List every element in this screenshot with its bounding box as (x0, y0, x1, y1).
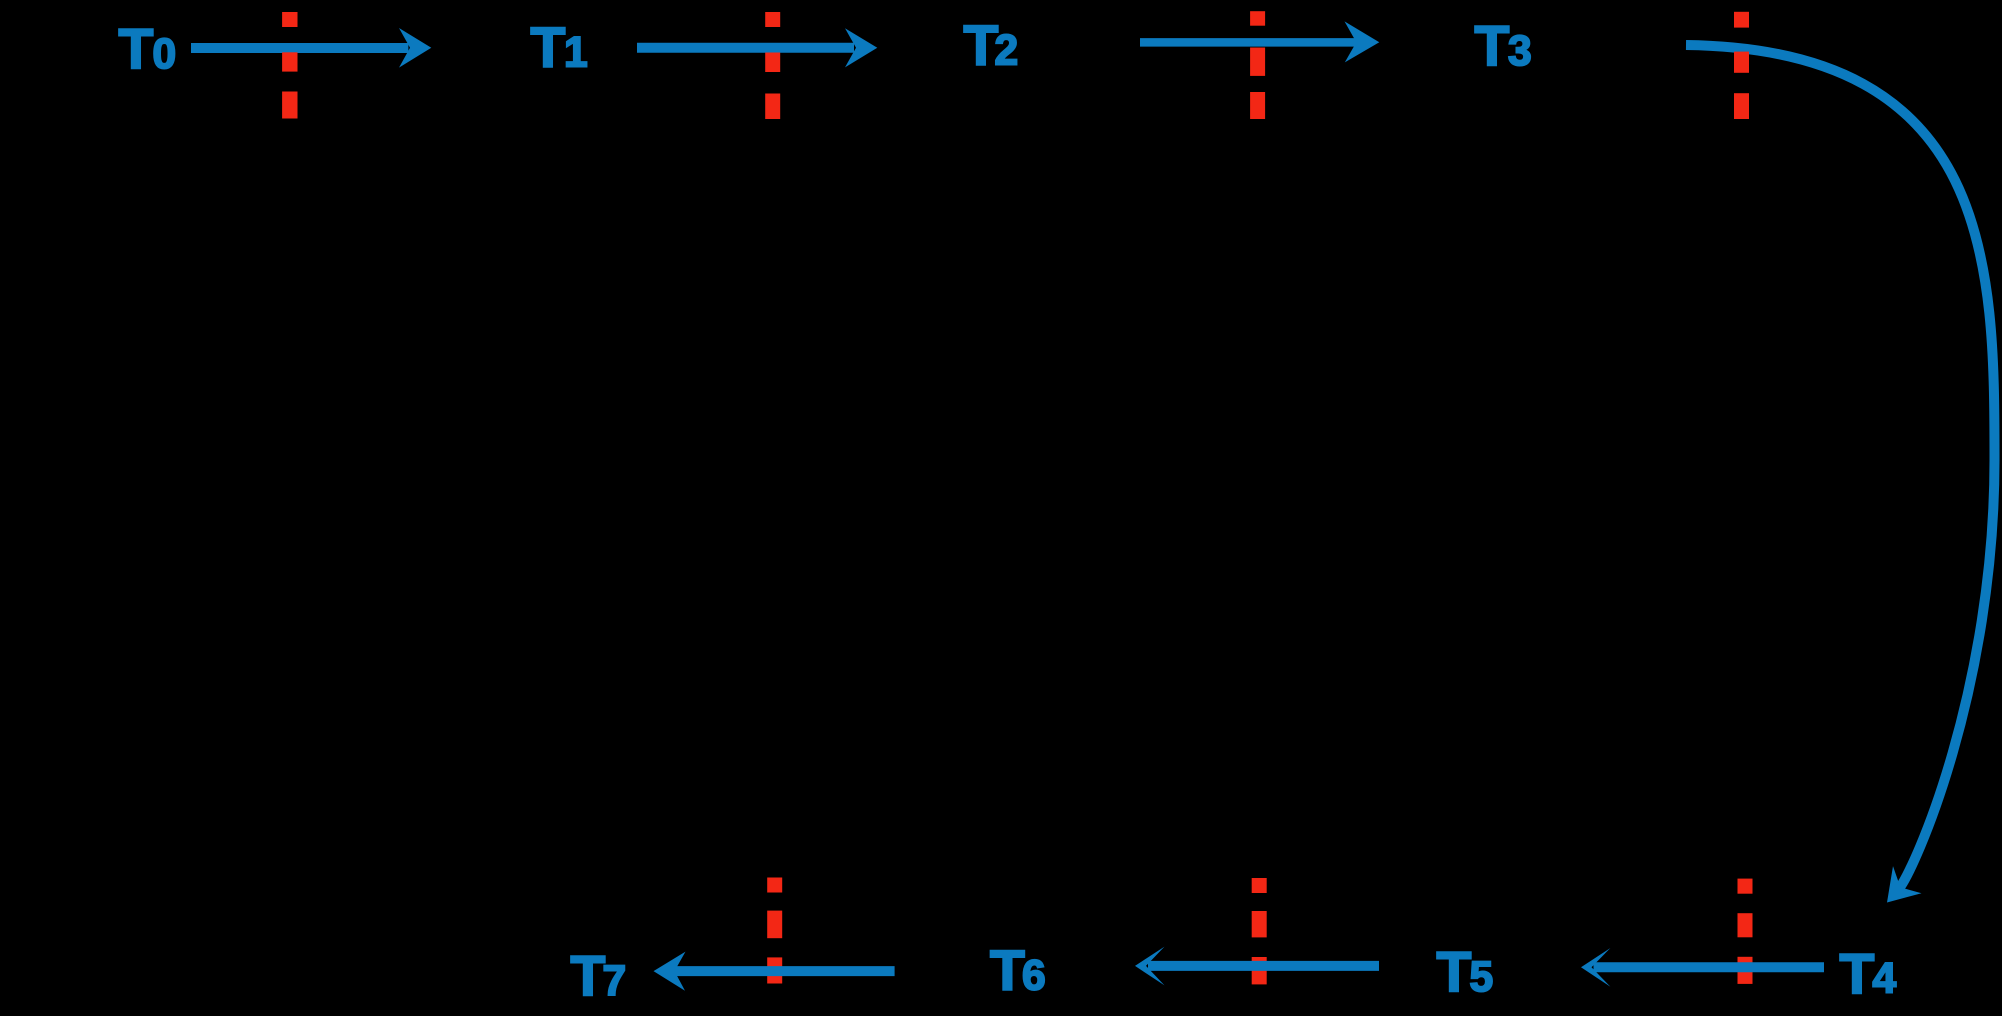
arrow T1 to T2 (637, 28, 877, 67)
label T1 (531, 16, 588, 80)
arrow T2 to T3 (1140, 21, 1379, 62)
svg-text:4: 4 (1873, 956, 1897, 1003)
svg-text:3: 3 (1508, 28, 1532, 75)
arrow T4 to T5 (1581, 948, 1824, 987)
svg-text:T: T (1437, 940, 1472, 1004)
label T0 (119, 17, 177, 81)
tick line 3 (red dashed) (1250, 11, 1265, 119)
svg-text:T: T (119, 17, 154, 81)
svg-text:T: T (1475, 14, 1510, 78)
label T2 (964, 13, 1019, 77)
tick line 6 (red dashed, bottom) (1252, 878, 1267, 984)
svg-text:T: T (531, 16, 566, 80)
svg-text:2: 2 (995, 27, 1019, 74)
tick line 1 (red dashed) (282, 12, 297, 119)
svg-text:5: 5 (1470, 954, 1494, 1001)
svg-text:T: T (1840, 942, 1875, 1006)
label T3 (1475, 14, 1532, 78)
svg-text:0: 0 (153, 31, 177, 78)
svg-text:T: T (964, 13, 999, 77)
tick line 7 (red dashed, bottom) (1738, 879, 1753, 984)
tick line 2 (red dashed) (765, 12, 780, 119)
label T4 (1840, 942, 1897, 1006)
svg-text:1: 1 (564, 30, 588, 77)
curved arrow T3 to T4 (1686, 45, 1995, 903)
label T7 (571, 944, 627, 1008)
arrow T0 to T1 (191, 28, 431, 68)
label T6 (990, 939, 1046, 1003)
label T5 (1437, 940, 1494, 1004)
svg-text:7: 7 (603, 958, 627, 1005)
arrow T6 to T7 (654, 952, 895, 991)
svg-text:6: 6 (1022, 953, 1046, 1000)
svg-text:T: T (990, 939, 1025, 1003)
tick line 4 (red dashed) (1734, 12, 1749, 119)
tick line 5 (red dashed, bottom) (767, 878, 782, 984)
svg-text:T: T (571, 944, 606, 1008)
arrow T5 to T6 (1135, 947, 1379, 986)
